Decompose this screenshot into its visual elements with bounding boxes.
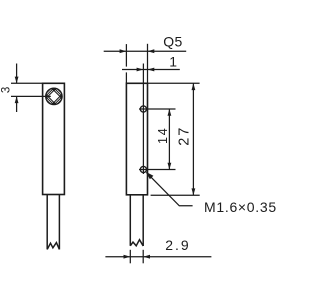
svg-text:14: 14 — [156, 126, 170, 144]
svg-text:1: 1 — [169, 54, 177, 70]
svg-text:27: 27 — [176, 126, 192, 146]
svg-text:3: 3 — [1, 87, 13, 93]
svg-text:M1.6×0.35: M1.6×0.35 — [204, 199, 277, 215]
svg-text:Q5: Q5 — [163, 33, 182, 49]
svg-text:2.9: 2.9 — [165, 237, 190, 253]
